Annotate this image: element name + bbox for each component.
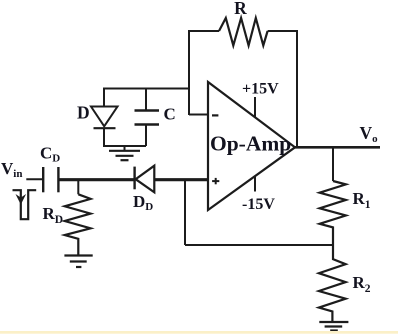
wire input thick: [58, 178, 135, 181]
svg-text:D: D: [77, 103, 90, 123]
ground G1: [109, 146, 140, 160]
node RD tap: [77, 180, 79, 194]
wire inverting input: [189, 114, 208, 116]
plus sign: [212, 178, 219, 184]
wire -15V: [254, 176, 256, 192]
diode D: [91, 88, 118, 147]
wire output: [294, 146, 380, 149]
ground G2: [64, 256, 92, 268]
wire DD to opamp: [154, 178, 208, 181]
svg-text:-15V: -15V: [242, 196, 275, 213]
wire +15V: [254, 97, 256, 118]
wire input lead: [26, 178, 42, 180]
svg-text:R: R: [234, 0, 247, 18]
resistor R2: [319, 245, 346, 322]
svg-text:C: C: [164, 104, 176, 123]
svg-text:+15V: +15V: [242, 80, 279, 97]
ground G3: [319, 322, 348, 331]
resistor RD: [65, 194, 91, 254]
pulse source symbol: [13, 190, 37, 219]
wire feedback left vertical: [188, 30, 190, 115]
wire R1 top lead: [332, 147, 334, 181]
wire noninv down: [184, 180, 186, 245]
wire bottom feedback: [185, 244, 333, 246]
bottom border strip: [0, 331, 398, 334]
capacitor C: [135, 88, 160, 147]
resistor R: [219, 18, 268, 46]
capacitor CD: [43, 167, 58, 192]
diode DD: [135, 166, 155, 193]
wire feedback right vertical: [296, 30, 298, 147]
resistor R1: [320, 181, 346, 245]
wire feedback top left: [189, 30, 219, 32]
svg-text:Op-Amp: Op-Amp: [210, 132, 291, 156]
wire D/C bottom: [103, 145, 146, 147]
wire D/C top: [104, 88, 189, 90]
minus sign: [212, 114, 218, 116]
wire feedback top right: [268, 30, 297, 32]
op-amp U1: [208, 82, 295, 210]
